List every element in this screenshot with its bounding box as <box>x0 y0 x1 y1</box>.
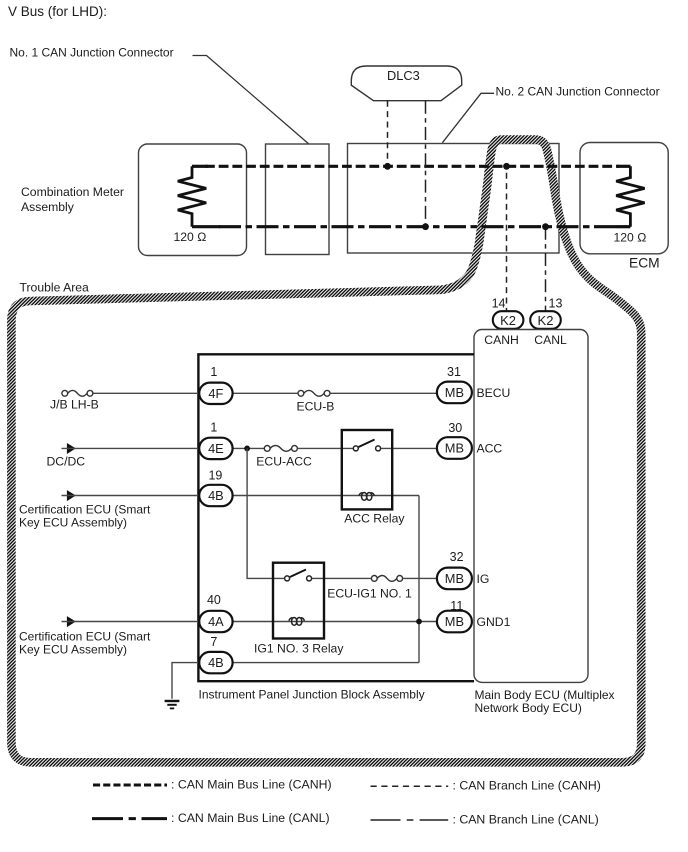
wire 4E junction down to IG1 relay switch <box>247 448 284 578</box>
ground <box>165 701 180 708</box>
svg-text:1: 1 <box>210 365 217 379</box>
box Main Body ECU <box>474 330 615 716</box>
wire K2 CANH branch <box>506 166 508 311</box>
wire vertical ACC coil to ground run <box>418 496 420 663</box>
svg-text:IG: IG <box>477 572 490 586</box>
svg-text:CANH: CANH <box>484 333 519 347</box>
svg-text:Trouble Area: Trouble Area <box>20 281 90 295</box>
wire Certification ECU to pin 4A <box>62 621 200 623</box>
svg-text:Assembly: Assembly <box>21 200 75 214</box>
relay IG1 NO. 3 Relay <box>254 563 344 656</box>
svg-text:Main Body ECU (Multiplex: Main Body ECU (Multiplex <box>475 688 615 702</box>
svg-text:DC/DC: DC/DC <box>47 455 86 469</box>
wire K2 CANL branch <box>545 227 547 312</box>
wire pin 4B (7) to ground and to vertical run <box>172 663 199 699</box>
arrow from DC/DC <box>47 443 86 469</box>
wire fuse ECU-ACC to ACC relay switch <box>297 447 353 449</box>
pin MB 11 GND1 <box>437 599 511 632</box>
leader line to No. 1 CAN junction connector <box>193 56 311 146</box>
box No. 1 CAN junction connector <box>266 144 330 255</box>
trouble area hatched border <box>11 140 641 763</box>
pin 4A (40) <box>199 593 232 632</box>
svg-text:ECU-ACC: ECU-ACC <box>256 455 312 469</box>
pin 14 connector K2 (CANH) <box>492 297 524 329</box>
box Instrument Panel Junction Block Assembly <box>198 354 474 701</box>
svg-text:No. 2 CAN Junction Connector: No. 2 CAN Junction Connector <box>496 85 660 99</box>
wire J/B LH-B to pin 4F <box>68 392 199 394</box>
arrow from Certification ECU (lower) <box>19 616 151 656</box>
pin 4E <box>199 421 232 459</box>
pin 4B (19) <box>199 469 232 506</box>
svg-text:Certification ECU (Smart: Certification ECU (Smart <box>19 503 151 517</box>
svg-text:4B: 4B <box>208 655 224 670</box>
relay ACC Relay <box>342 430 406 526</box>
box Combination Meter Assembly <box>21 144 247 256</box>
node DLC3 CANH junction <box>384 163 391 170</box>
svg-text:1: 1 <box>210 421 217 435</box>
svg-text:Network Body ECU): Network Body ECU) <box>475 701 582 715</box>
svg-text:MB: MB <box>445 571 464 586</box>
leader line to No. 2 CAN junction connector <box>442 93 494 142</box>
wire pin 4E to fuse ECU-ACC <box>233 447 265 449</box>
wire ACC relay switch to pin ACC <box>380 447 437 449</box>
wire DLC3 CANL branch <box>425 101 427 227</box>
svg-text:MB: MB <box>445 385 464 400</box>
svg-text:Key ECU Assembly): Key ECU Assembly) <box>19 643 127 657</box>
svg-text:GND1: GND1 <box>477 615 511 629</box>
svg-text:DLC3: DLC3 <box>387 68 420 83</box>
legend CAN main bus line CANH <box>93 778 332 792</box>
node K2 CANL junction <box>542 223 549 230</box>
fuse ECU-IG1 NO. 1 <box>327 576 412 601</box>
svg-text:CANL: CANL <box>534 333 567 347</box>
svg-text:BECU: BECU <box>477 386 511 400</box>
pin 4F <box>199 365 232 404</box>
resistor 120 ohm (combination meter) <box>174 166 207 244</box>
wire CANH main bus line <box>192 165 630 168</box>
arrow from Certification ECU (upper) <box>19 490 151 529</box>
svg-text:14: 14 <box>492 297 506 311</box>
wire CANL main bus line <box>192 225 630 228</box>
wire pin 4A through IG1 coil to pin GND1 <box>233 621 437 623</box>
svg-text:Key ECU Assembly): Key ECU Assembly) <box>19 516 127 530</box>
node 4E branch junction <box>244 446 250 452</box>
svg-text:120 Ω: 120 Ω <box>174 230 207 244</box>
svg-text:Certification ECU (Smart: Certification ECU (Smart <box>19 630 151 644</box>
svg-text:: CAN Branch Line (CANH): : CAN Branch Line (CANH) <box>453 779 601 793</box>
svg-text:J/B LH-B: J/B LH-B <box>50 398 99 412</box>
box No. 2 CAN junction connector <box>348 144 560 254</box>
svg-text:4F: 4F <box>208 386 223 401</box>
svg-text:ECU-B: ECU-B <box>297 400 335 414</box>
wire fuse ECU-IG1 to pin IG <box>403 577 437 579</box>
svg-text:7: 7 <box>210 635 217 649</box>
svg-text:V Bus (for LHD):: V Bus (for LHD): <box>8 4 107 19</box>
svg-text:4B: 4B <box>208 488 224 503</box>
svg-text:4E: 4E <box>208 441 224 456</box>
svg-text:MB: MB <box>445 614 464 629</box>
legend CAN main bus line CANL <box>92 811 330 825</box>
svg-text:: CAN Main Bus Line (CANH): : CAN Main Bus Line (CANH) <box>171 778 332 792</box>
box ECM <box>580 143 668 271</box>
svg-text:32: 32 <box>450 550 464 564</box>
fuse J/B LH-B <box>50 390 99 411</box>
pin 13 connector K2 (CANL) <box>530 297 562 329</box>
svg-text:K2: K2 <box>500 313 516 328</box>
pin MB 31 BECU <box>437 365 510 403</box>
node DLC3 CANL junction <box>422 223 429 230</box>
svg-text:ECU-IG1 NO. 1: ECU-IG1 NO. 1 <box>327 587 412 601</box>
fuse ECU-B <box>297 390 335 413</box>
svg-text:31: 31 <box>447 365 461 379</box>
wire DLC3 CANH branch <box>387 101 389 167</box>
svg-text:19: 19 <box>208 469 222 483</box>
svg-text:: CAN Branch Line (CANL): : CAN Branch Line (CANL) <box>453 812 599 826</box>
fuse ECU-ACC <box>256 446 312 469</box>
svg-text:ECM: ECM <box>629 256 660 271</box>
pin 4B (7) <box>199 635 232 673</box>
legend CAN branch line CANH <box>371 779 601 793</box>
svg-text:ACC Relay: ACC Relay <box>344 512 405 526</box>
svg-text:IG1 NO. 3 Relay: IG1 NO. 3 Relay <box>254 642 344 656</box>
svg-text:MB: MB <box>445 441 464 456</box>
node GND1 junction <box>416 619 422 625</box>
wire Certification ECU to pin 4B <box>62 495 200 497</box>
svg-text:No. 1 CAN Junction Connector: No. 1 CAN Junction Connector <box>10 46 174 60</box>
wire DC/DC to pin 4E <box>62 447 200 449</box>
svg-text:K2: K2 <box>538 313 554 328</box>
legend CAN branch line CANL <box>371 812 599 826</box>
svg-text:4A: 4A <box>208 614 224 629</box>
pin MB 30 ACC <box>437 421 503 459</box>
svg-text:Combination Meter: Combination Meter <box>21 185 124 199</box>
svg-text:ACC: ACC <box>477 442 503 456</box>
svg-text:: CAN Main Bus Line (CANL): : CAN Main Bus Line (CANL) <box>171 811 330 825</box>
svg-text:40: 40 <box>207 593 221 607</box>
connector DLC3 <box>351 66 461 101</box>
wire pin 4B to ACC relay coil and on to vertical <box>233 495 419 497</box>
wire fuse ECU-B to pin BECU <box>330 392 437 394</box>
svg-text:Instrument Panel Junction Bloc: Instrument Panel Junction Block Assembly <box>199 688 425 702</box>
node K2 CANH junction <box>503 163 510 170</box>
wire pin 4F to fuse ECU-B <box>233 392 298 394</box>
pin MB 32 IG <box>437 550 489 589</box>
svg-text:30: 30 <box>448 421 462 435</box>
resistor 120 ohm (ECM) <box>614 166 647 244</box>
svg-text:13: 13 <box>549 297 563 311</box>
wire IG1 relay switch to fuse ECU-IG1 <box>312 577 371 579</box>
svg-text:120 Ω: 120 Ω <box>614 231 647 245</box>
